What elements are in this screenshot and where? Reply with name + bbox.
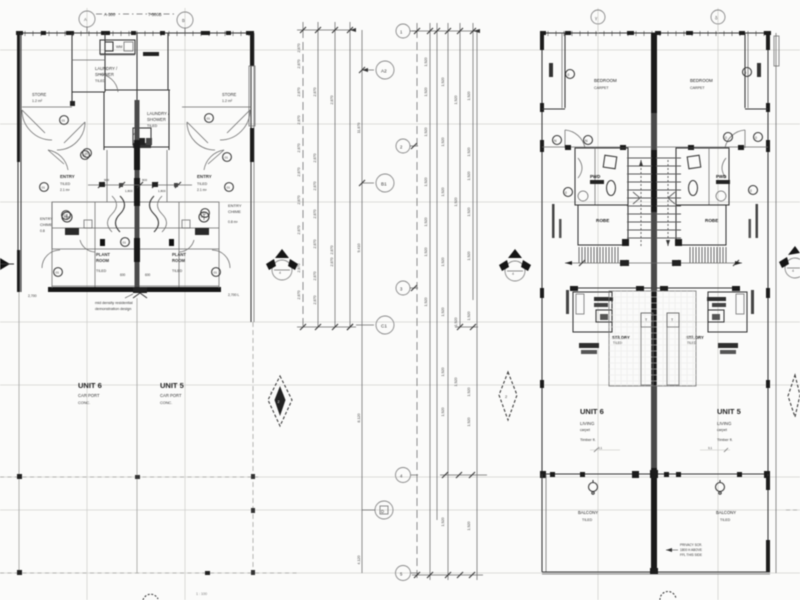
void small rooms: [641, 313, 679, 385]
svg-text:1,920: 1,920: [454, 318, 458, 327]
section diamond far right: [788, 375, 800, 417]
mini dim left: [590, 446, 620, 452]
right plan party wall: [651, 33, 657, 572]
svg-text:4: 4: [279, 271, 281, 275]
stair hatch right: [690, 247, 726, 263]
svg-text:2: 2: [278, 400, 280, 404]
dim cluster2 top connector: [412, 23, 480, 34]
unit 6 label left plan: [78, 381, 102, 405]
svg-text:01: 01: [207, 117, 211, 121]
svg-text:TILED: TILED: [96, 269, 107, 273]
dim cluster1 bottom connector: [297, 324, 356, 330]
bedroom door arc left: [565, 130, 585, 148]
svg-text:UNIT 6: UNIT 6: [78, 381, 102, 390]
balcony door circle right: [716, 480, 725, 494]
dim cluster2 line b: [429, 30, 431, 580]
svg-text:CARPET: CARPET: [690, 86, 705, 90]
dim cluster1 line c: [334, 30, 336, 327]
svg-text:T: T: [645, 318, 648, 322]
svg-text:9,410: 9,410: [357, 244, 361, 253]
right plan wall y287: [570, 286, 740, 291]
svg-text:1.2 m²: 1.2 m²: [222, 99, 233, 103]
grid bubble E mid2: [396, 281, 418, 295]
svg-text:Timber fl.: Timber fl.: [717, 438, 733, 442]
balcony right wall: [766, 474, 770, 572]
svg-text:ROBE: ROBE: [705, 218, 718, 223]
laundry room 2 walls: [104, 60, 169, 150]
faint vertical gridlines: [87, 8, 718, 600]
bedroom wall left unit: [542, 33, 565, 109]
section diamond right-plan-left: [499, 372, 517, 420]
dim cluster2 hline y575: [412, 572, 483, 578]
balcony left wall: [542, 474, 546, 572]
left plan inner partitions: [52, 150, 179, 287]
svg-text:LAUNDRY /: LAUNDRY /: [147, 111, 170, 116]
svg-text:0: 0: [565, 191, 567, 195]
svg-text:4: 4: [792, 269, 794, 273]
svg-text:3: 3: [400, 287, 403, 292]
balcony door circle left: [589, 480, 598, 494]
fridge label left: [579, 343, 599, 354]
svg-text:LIVING: LIVING: [580, 421, 595, 426]
svg-text:T-500B: T-500B: [148, 12, 162, 17]
laundry 2 label: [147, 111, 170, 128]
svg-text:1,920: 1,920: [454, 96, 458, 105]
svg-text:δ: δ: [715, 16, 718, 21]
balcony label left: [578, 510, 598, 522]
grid bubble B top-left: [177, 12, 193, 33]
right plan wall y147: [542, 145, 768, 150]
grid bubble E bottom: [396, 566, 419, 581]
svg-text:2,870: 2,870: [297, 60, 301, 69]
svg-text:CARPET: CARPET: [594, 86, 609, 90]
bedroom label left: [594, 78, 617, 90]
svg-text:0: 0: [745, 71, 747, 75]
svg-text:ROBE: ROBE: [596, 218, 609, 223]
svg-text:TILED: TILED: [95, 79, 106, 83]
window left wall upper: [549, 63, 553, 77]
svg-text:600: 600: [120, 273, 126, 277]
right plan right wall: [766, 33, 770, 476]
svg-text:B1: B1: [381, 182, 387, 187]
mini dim right: [700, 446, 730, 452]
svg-text:1,920: 1,920: [467, 312, 471, 321]
pwd label right: [716, 174, 730, 184]
svg-text:1,920: 1,920: [467, 522, 471, 531]
svg-text:B: B: [182, 18, 185, 23]
window right wall upper: [757, 63, 761, 77]
store label right plan right: [686, 335, 704, 345]
svg-text:ENTRY: ENTRY: [197, 174, 212, 179]
section marker right-plan-right: [779, 246, 800, 278]
svg-text:01: 01: [64, 214, 68, 218]
svg-text:2,870: 2,870: [297, 168, 301, 177]
svg-text:0.8 m²: 0.8 m²: [228, 220, 238, 224]
door arc laundry: [98, 74, 118, 92]
carport dashed line y477: [0, 474, 258, 479]
left plan right wall: [249, 33, 255, 322]
bottom partial bubble left: [143, 592, 207, 600]
label A-500: [96, 12, 176, 17]
privacy note: [666, 543, 702, 557]
bedroom door tag right: [743, 68, 752, 77]
svg-text:2: 2: [505, 394, 508, 399]
door arc store left: [22, 107, 72, 140]
carport dashed line y573: [0, 570, 300, 575]
svg-text:1,920: 1,920: [424, 128, 428, 137]
dim long line center: [361, 30, 363, 573]
grid bubble E mid1: [396, 139, 418, 153]
svg-text:TILED: TILED: [60, 182, 71, 186]
left plan party wall: [134, 100, 140, 287]
svg-text:STORE: STORE: [222, 92, 237, 97]
svg-text:11,870: 11,870: [357, 123, 361, 134]
svg-text:01: 01: [225, 156, 229, 160]
svg-text:N: N: [585, 139, 588, 143]
svg-text:4: 4: [512, 272, 514, 276]
entry label right: [197, 174, 212, 192]
svg-text:1,920: 1,920: [467, 92, 471, 101]
right dashed y510: [786, 509, 800, 511]
left plan bath fixtures left: [62, 212, 95, 252]
svg-text:1,920: 1,920: [441, 258, 445, 267]
balcony wall y474: [540, 470, 770, 478]
grid bubble A top-left: [79, 11, 95, 33]
svg-text:1,920: 1,920: [467, 172, 471, 181]
dim cluster2 line a: [416, 30, 418, 580]
svg-text:2,870: 2,870: [330, 246, 334, 255]
robe room right: [675, 205, 726, 246]
dim cluster2 line d: [447, 30, 449, 580]
svg-text:1,920: 1,920: [424, 218, 428, 227]
stairs treads: [627, 158, 681, 238]
svg-text:CONC.: CONC.: [78, 401, 90, 405]
svg-text:2,870: 2,870: [297, 264, 301, 273]
kitchen right: [707, 290, 754, 332]
svg-text:ENTRY: ENTRY: [40, 217, 53, 221]
svg-text:ROOM: ROOM: [172, 258, 186, 263]
svg-text:0: 0: [568, 73, 570, 77]
right plan left wall: [540, 33, 544, 476]
svg-text:PWD: PWD: [716, 174, 726, 179]
section marker mid-left: [266, 249, 298, 280]
svg-text:ENTRY: ENTRY: [60, 174, 75, 179]
unit 5 label right plan: [717, 407, 741, 442]
svg-text:1,920: 1,920: [424, 248, 428, 257]
svg-text:demonstration design: demonstration design: [95, 307, 131, 311]
svg-text:1.2 m²: 1.2 m²: [32, 99, 43, 103]
grid bubble E low: [396, 468, 419, 483]
dim cluster1 line b: [317, 30, 319, 327]
dim cluster1 line a: [302, 30, 304, 327]
svg-text:01: 01: [123, 241, 127, 245]
left plan inner block outline: [52, 202, 219, 288]
laundry 1 label: [95, 66, 118, 83]
left edge section arrow: [0, 258, 14, 270]
door arc store right: [182, 107, 251, 140]
left plan left wall: [17, 33, 21, 292]
right plan grid bubble left: [591, 10, 605, 33]
svg-text:ENTRY: ENTRY: [228, 203, 242, 208]
svg-text:CAR PORT: CAR PORT: [78, 393, 100, 398]
svg-text:2: 2: [400, 145, 403, 150]
door arc lower right: [212, 250, 230, 268]
top wall ticks left plan: [25, 31, 249, 36]
dim text left of wall: [28, 294, 37, 298]
door arc entry left: [48, 122, 85, 170]
bottom partial bubble right: [660, 592, 676, 600]
svg-text:1,920: 1,920: [424, 298, 428, 307]
svg-text:2,870: 2,870: [313, 240, 317, 249]
svg-text:mid density residential: mid density residential: [95, 301, 133, 305]
svg-text:CHIME: CHIME: [40, 223, 53, 227]
svg-text:1,920: 1,920: [467, 418, 471, 427]
svg-text:SHOWER: SHOWER: [147, 117, 166, 122]
svg-text:1,920: 1,920: [441, 138, 445, 147]
dim long line texts: [357, 123, 361, 565]
dim cluster2 line e: [459, 30, 461, 327]
svg-text:2,870: 2,870: [313, 296, 317, 305]
dim cluster1 line d: [349, 30, 351, 327]
svg-text:Timber fl.: Timber fl.: [580, 438, 596, 442]
svg-text:TILED: TILED: [197, 182, 208, 186]
svg-text:600: 600: [145, 273, 151, 277]
svg-text:2,870: 2,870: [297, 196, 301, 205]
label T-500B: [148, 12, 162, 17]
unit 6 label right plan: [580, 407, 604, 442]
svg-text:1,920: 1,920: [467, 208, 471, 217]
svg-text:900: 900: [142, 178, 147, 182]
svg-text:1,920: 1,920: [454, 198, 458, 207]
svg-text:1,920: 1,920: [441, 78, 445, 87]
svg-text:SHOWER: SHOWER: [95, 72, 114, 77]
svg-text:carpet: carpet: [717, 428, 727, 432]
entry label left: [60, 174, 75, 192]
svg-text:TILED: TILED: [172, 269, 183, 273]
svg-text:900: 900: [104, 178, 109, 182]
svg-text:1,800: 1,800: [158, 189, 166, 193]
svg-text:A-500: A-500: [104, 12, 116, 17]
svg-text:1,920: 1,920: [441, 188, 445, 197]
right plan grid bubble right: [711, 10, 725, 33]
svg-text:1,920: 1,920: [424, 58, 428, 67]
svg-text:C1: C1: [381, 324, 387, 329]
laundry 2 fixture: [133, 128, 152, 145]
laundry room 1 walls: [70, 33, 170, 106]
svg-text:1,920: 1,920: [441, 368, 445, 377]
bath door tag right: [749, 186, 758, 195]
svg-text:LIVING: LIVING: [717, 421, 732, 426]
store label left: [32, 92, 47, 103]
store label right plan left: [612, 335, 630, 345]
unit 5 label left plan: [160, 381, 184, 405]
door tag circles left plan: [40, 114, 234, 277]
grid bubble C2: [347, 316, 394, 334]
svg-text:1,920: 1,920: [467, 388, 471, 397]
svg-text:2,870: 2,870: [297, 88, 301, 97]
plant room label left: [96, 252, 110, 273]
svg-text:2,870: 2,870: [313, 272, 317, 281]
svg-text:2,700: 2,700: [28, 294, 37, 298]
plant room label right: [172, 252, 186, 273]
carport center line: [136, 298, 138, 573]
center void grid: [609, 291, 696, 386]
svg-text:01: 01: [203, 212, 207, 216]
svg-text:1,920: 1,920: [441, 518, 445, 527]
grid bubble A2: [359, 61, 394, 79]
svg-text:01: 01: [56, 271, 60, 275]
svg-text:01: 01: [42, 186, 46, 190]
svg-text:1,920: 1,920: [424, 178, 428, 187]
dim cluster2 line g: [476, 30, 478, 580]
svg-text:TILED: TILED: [582, 518, 593, 522]
svg-text:5: 5: [400, 572, 403, 577]
window left wall mid: [552, 204, 562, 238]
svg-text:2,870: 2,870: [313, 210, 317, 219]
dim cluster2 hline y475: [440, 472, 487, 478]
svg-text:0: 0: [725, 136, 727, 140]
svg-text:PWD: PWD: [590, 174, 600, 179]
dim cluster1 top connector: [297, 22, 356, 33]
store label right: [222, 92, 237, 103]
svg-text:1,920: 1,920: [424, 88, 428, 97]
grid bubble D2: [362, 501, 393, 519]
pwd label left: [590, 174, 604, 184]
svg-text:2,870: 2,870: [330, 96, 334, 105]
dim text right of wall: [228, 293, 239, 297]
svg-text:BEDROOM: BEDROOM: [690, 78, 713, 83]
svg-text:2.1 m²: 2.1 m²: [197, 188, 207, 192]
left plan center fixtures: [100, 196, 174, 277]
svg-text:0: 0: [750, 189, 752, 193]
svg-text:2,870: 2,870: [297, 291, 301, 300]
carport left line: [18, 292, 20, 573]
note under bottom wall: [95, 294, 133, 311]
left plan bottom wall center mark: [133, 287, 147, 298]
bedroom door tag left: [566, 70, 575, 79]
bedroom wall right unit: [745, 33, 768, 109]
balcony label right: [716, 510, 736, 522]
svg-text:1,920: 1,920: [467, 148, 471, 157]
svg-text:0.8: 0.8: [40, 229, 45, 233]
dim cluster2 line c: [436, 30, 438, 520]
left plan top wall: [16, 31, 254, 35]
svg-text:UNIT 6: UNIT 6: [580, 407, 604, 416]
svg-text:TILED: TILED: [720, 518, 731, 522]
svg-text:CHIME: CHIME: [228, 209, 241, 214]
svg-text:1,800: 1,800: [125, 189, 133, 193]
kitchen left: [566, 290, 613, 332]
svg-text:2.1 m²: 2.1 m²: [60, 188, 70, 192]
svg-text:01: 01: [62, 119, 66, 123]
diagonal leader tick: [270, 391, 272, 395]
svg-text:2,870: 2,870: [297, 44, 301, 53]
svg-text:D: D: [381, 509, 384, 514]
svg-text:carpet: carpet: [580, 428, 590, 432]
right plan top wall: [540, 31, 771, 35]
entry chime label left: [40, 217, 53, 233]
svg-text:ROOM: ROOM: [96, 258, 110, 263]
svg-text:2,700 L: 2,700 L: [228, 293, 239, 297]
svg-text:01: 01: [227, 186, 231, 190]
svg-text:A2: A2: [381, 69, 387, 74]
entry chime label right: [228, 203, 242, 224]
svg-text:0: 0: [755, 136, 757, 140]
right plan dim line y263: [565, 260, 742, 266]
dim cluster2 hline y327: [455, 324, 478, 330]
svg-text:1800 H ABOVE: 1800 H ABOVE: [680, 548, 702, 552]
svg-text:UNIT 5: UNIT 5: [160, 381, 184, 390]
grid bubble E top: [396, 24, 417, 38]
bedroom label right: [690, 78, 713, 90]
svg-text:4: 4: [400, 474, 403, 479]
svg-text:1,920: 1,920: [467, 252, 471, 261]
svg-text:PLANT: PLANT: [172, 252, 186, 257]
svg-text:3,1: 3,1: [598, 446, 603, 450]
svg-text:4,120: 4,120: [357, 556, 361, 565]
left plan bath fixtures right: [179, 212, 209, 252]
door arc lower left: [42, 250, 60, 268]
svg-text:1,920: 1,920: [441, 408, 445, 417]
svg-text:TILED: TILED: [687, 341, 697, 345]
svg-text:01: 01: [214, 271, 218, 275]
svg-text:γ: γ: [595, 16, 598, 21]
svg-text:UNIT 5: UNIT 5: [717, 407, 741, 416]
svg-text:FFL THIS SIDE: FFL THIS SIDE: [680, 553, 702, 557]
svg-text:PRIVACY SCR.: PRIVACY SCR.: [680, 543, 702, 547]
svg-text:2,870: 2,870: [313, 88, 317, 97]
laundry 1 fixture box: [100, 40, 159, 56]
svg-text:1,920: 1,920: [441, 308, 445, 317]
grid bubble B2: [359, 174, 394, 192]
left plan bottom wall heavy: [48, 287, 221, 292]
svg-text:1: 1: [270, 391, 272, 395]
svg-text:2,870: 2,870: [297, 226, 301, 235]
svg-text:BEDROOM: BEDROOM: [594, 78, 617, 83]
left plan dim line y185: [88, 178, 192, 193]
right plan outer right line: [774, 33, 779, 573]
window right wall mid: [749, 204, 759, 238]
svg-text:2,870: 2,870: [297, 144, 301, 153]
svg-text:TILED: TILED: [147, 124, 158, 128]
svg-text:01: 01: [85, 152, 89, 156]
svg-text:STORE: STORE: [32, 92, 47, 97]
svg-text:2,870: 2,870: [313, 154, 317, 163]
svg-text:CAR PORT: CAR PORT: [160, 393, 182, 398]
carport right dashed line: [251, 322, 255, 576]
svg-text:2,870: 2,870: [330, 258, 334, 267]
fridge label right: [718, 343, 738, 354]
bath door tag left: [564, 188, 573, 197]
dim cluster2 line f: [472, 30, 474, 300]
svg-text:3,1: 3,1: [708, 446, 713, 450]
bathroom pod right: [676, 148, 729, 205]
door tags row: [553, 133, 763, 145]
svg-text:1,920: 1,920: [454, 378, 458, 387]
svg-text:A: A: [84, 17, 87, 22]
section diamond left sheet: [268, 376, 292, 426]
svg-text:CONC.: CONC.: [160, 401, 172, 405]
svg-text:2,870: 2,870: [297, 116, 301, 125]
svg-text:1 : 100: 1 : 100: [196, 592, 207, 596]
dim cluster2 rotated texts: [424, 58, 471, 531]
svg-text:BALCONY: BALCONY: [578, 510, 598, 515]
stairs arrows: [633, 160, 675, 246]
robe room left: [578, 205, 629, 246]
svg-text:N: N: [554, 139, 557, 143]
stair hatch left: [579, 247, 618, 263]
svg-text:1: 1: [400, 30, 403, 35]
